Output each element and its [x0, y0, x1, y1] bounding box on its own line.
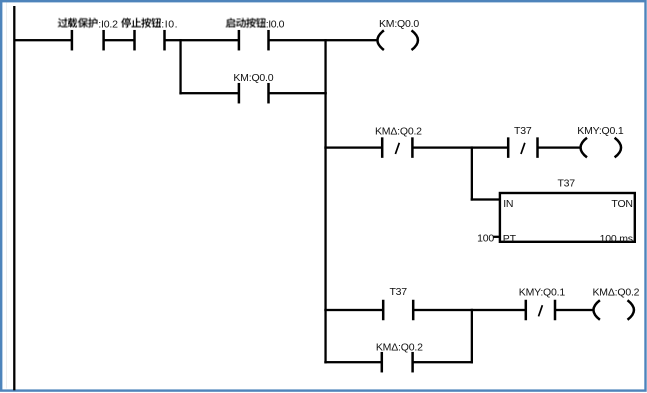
wire rung1: I0.2 to I0. [104, 39, 135, 41]
label 停止按钮:I0. [121, 18, 178, 31]
wire rung2: bus to contact KMΔ [324, 146, 382, 148]
svg-text:KMY:Q0.1: KMY:Q0.1 [519, 286, 566, 298]
wire rung2: KMΔ to contact T37 [412, 146, 508, 148]
pin label TON [611, 198, 632, 210]
svg-text:KMΔ:Q0.2: KMΔ:Q0.2 [592, 286, 639, 298]
label contact T37 [514, 125, 532, 137]
label coil KMΔ:Q0.2 [592, 286, 639, 298]
svg-text:100: 100 [477, 232, 494, 244]
value label 100 ms [600, 233, 633, 245]
wire rung3: bus to contact T37 [324, 309, 383, 311]
contact KMΔ:Q0.2 (NC) [381, 137, 414, 158]
label 启动按钮:I0.0 [226, 18, 285, 31]
wire parallel rung3b to node [413, 361, 473, 363]
svg-text::I0.2: :I0.2 [98, 18, 118, 30]
main vertical bus from rung1 down to rung3 branch [324, 39, 326, 363]
svg-text:TON: TON [611, 198, 632, 210]
svg-text:KM:Q0.0: KM:Q0.0 [379, 18, 419, 30]
svg-text:T37: T37 [514, 125, 532, 137]
svg-text:KMY:Q0.1: KMY:Q0.1 [577, 125, 624, 137]
wire into timer IN input [471, 198, 501, 200]
PT input tick [493, 236, 500, 238]
wire parallel rung3b: bus to contact KMΔ [324, 361, 382, 363]
svg-text:PT: PT [503, 233, 517, 245]
svg-text:100 ms: 100 ms [600, 233, 633, 245]
wire parallel branch to main vertical [269, 92, 327, 94]
label coil KM:Q0.0 [379, 18, 419, 30]
svg-text:IN: IN [503, 198, 513, 210]
coil KMY:Q0.1 [581, 138, 622, 158]
branch node: rung1 to parallel branch [179, 39, 181, 94]
contact KMY:Q0.1 (NC) [525, 300, 557, 321]
contact 停止按钮:I0. (NO) [133, 30, 166, 51]
contact 过载保护:I0.2 (NO) [71, 30, 105, 51]
wire rung1: I0. to I0.0 [165, 39, 240, 41]
svg-text:KM:Q0.0: KM:Q0.0 [233, 72, 273, 84]
svg-text::I0.: :I0. [161, 18, 178, 30]
label 过载保护:I0.2 [58, 18, 118, 31]
pin label PT [503, 233, 517, 245]
svg-text:KMΔ:Q0.2: KMΔ:Q0.2 [376, 342, 423, 354]
wire rung2: T37 to coil KMY [538, 146, 581, 148]
label contact T37 rung3 [389, 286, 407, 298]
node: rung2 branch down to timer IN [471, 146, 473, 200]
value label 100 [477, 232, 494, 244]
contact 启动按钮:I0.0 (NO) [238, 30, 270, 51]
svg-text:KMΔ:Q0.2: KMΔ:Q0.2 [375, 126, 422, 138]
wire rung3: T37 to contact KMY [413, 309, 526, 311]
coil KM:Q0.0 [377, 30, 418, 50]
node: rung3 branch down to parallel KMΔ [471, 309, 473, 364]
contact KM:Q0.0 seal-in (NO) [238, 83, 270, 104]
wire rung3: KMY to coil KMΔ [555, 309, 593, 311]
label contact KMY:Q0.1 [519, 286, 566, 298]
label coil KMY:Q0.1 [577, 125, 624, 137]
label timer T37 [557, 178, 575, 190]
wire rung1: I0.0 to coil KM [269, 39, 378, 41]
label contact KMΔ:Q0.2 rung3b [376, 342, 423, 354]
left power rail [13, 6, 15, 390]
wire rung1: rail to contact I0.2 [14, 39, 71, 41]
svg-text::I0.0: :I0.0 [266, 18, 285, 30]
pin label IN [503, 198, 513, 210]
contact KMΔ:Q0.2 seal (NO) [381, 352, 414, 373]
timer box T37 TON [500, 193, 635, 242]
svg-text:T37: T37 [389, 286, 407, 298]
svg-text:T37: T37 [557, 178, 575, 190]
contact T37 (NO) [382, 300, 415, 321]
coil KMΔ:Q0.2 [593, 300, 634, 320]
label contact KMΔ:Q0.2 [375, 126, 422, 138]
wire parallel branch to contact KM [179, 92, 239, 94]
contact T37 (NC) [507, 137, 539, 158]
label contact KM:Q0.0 [233, 72, 273, 84]
